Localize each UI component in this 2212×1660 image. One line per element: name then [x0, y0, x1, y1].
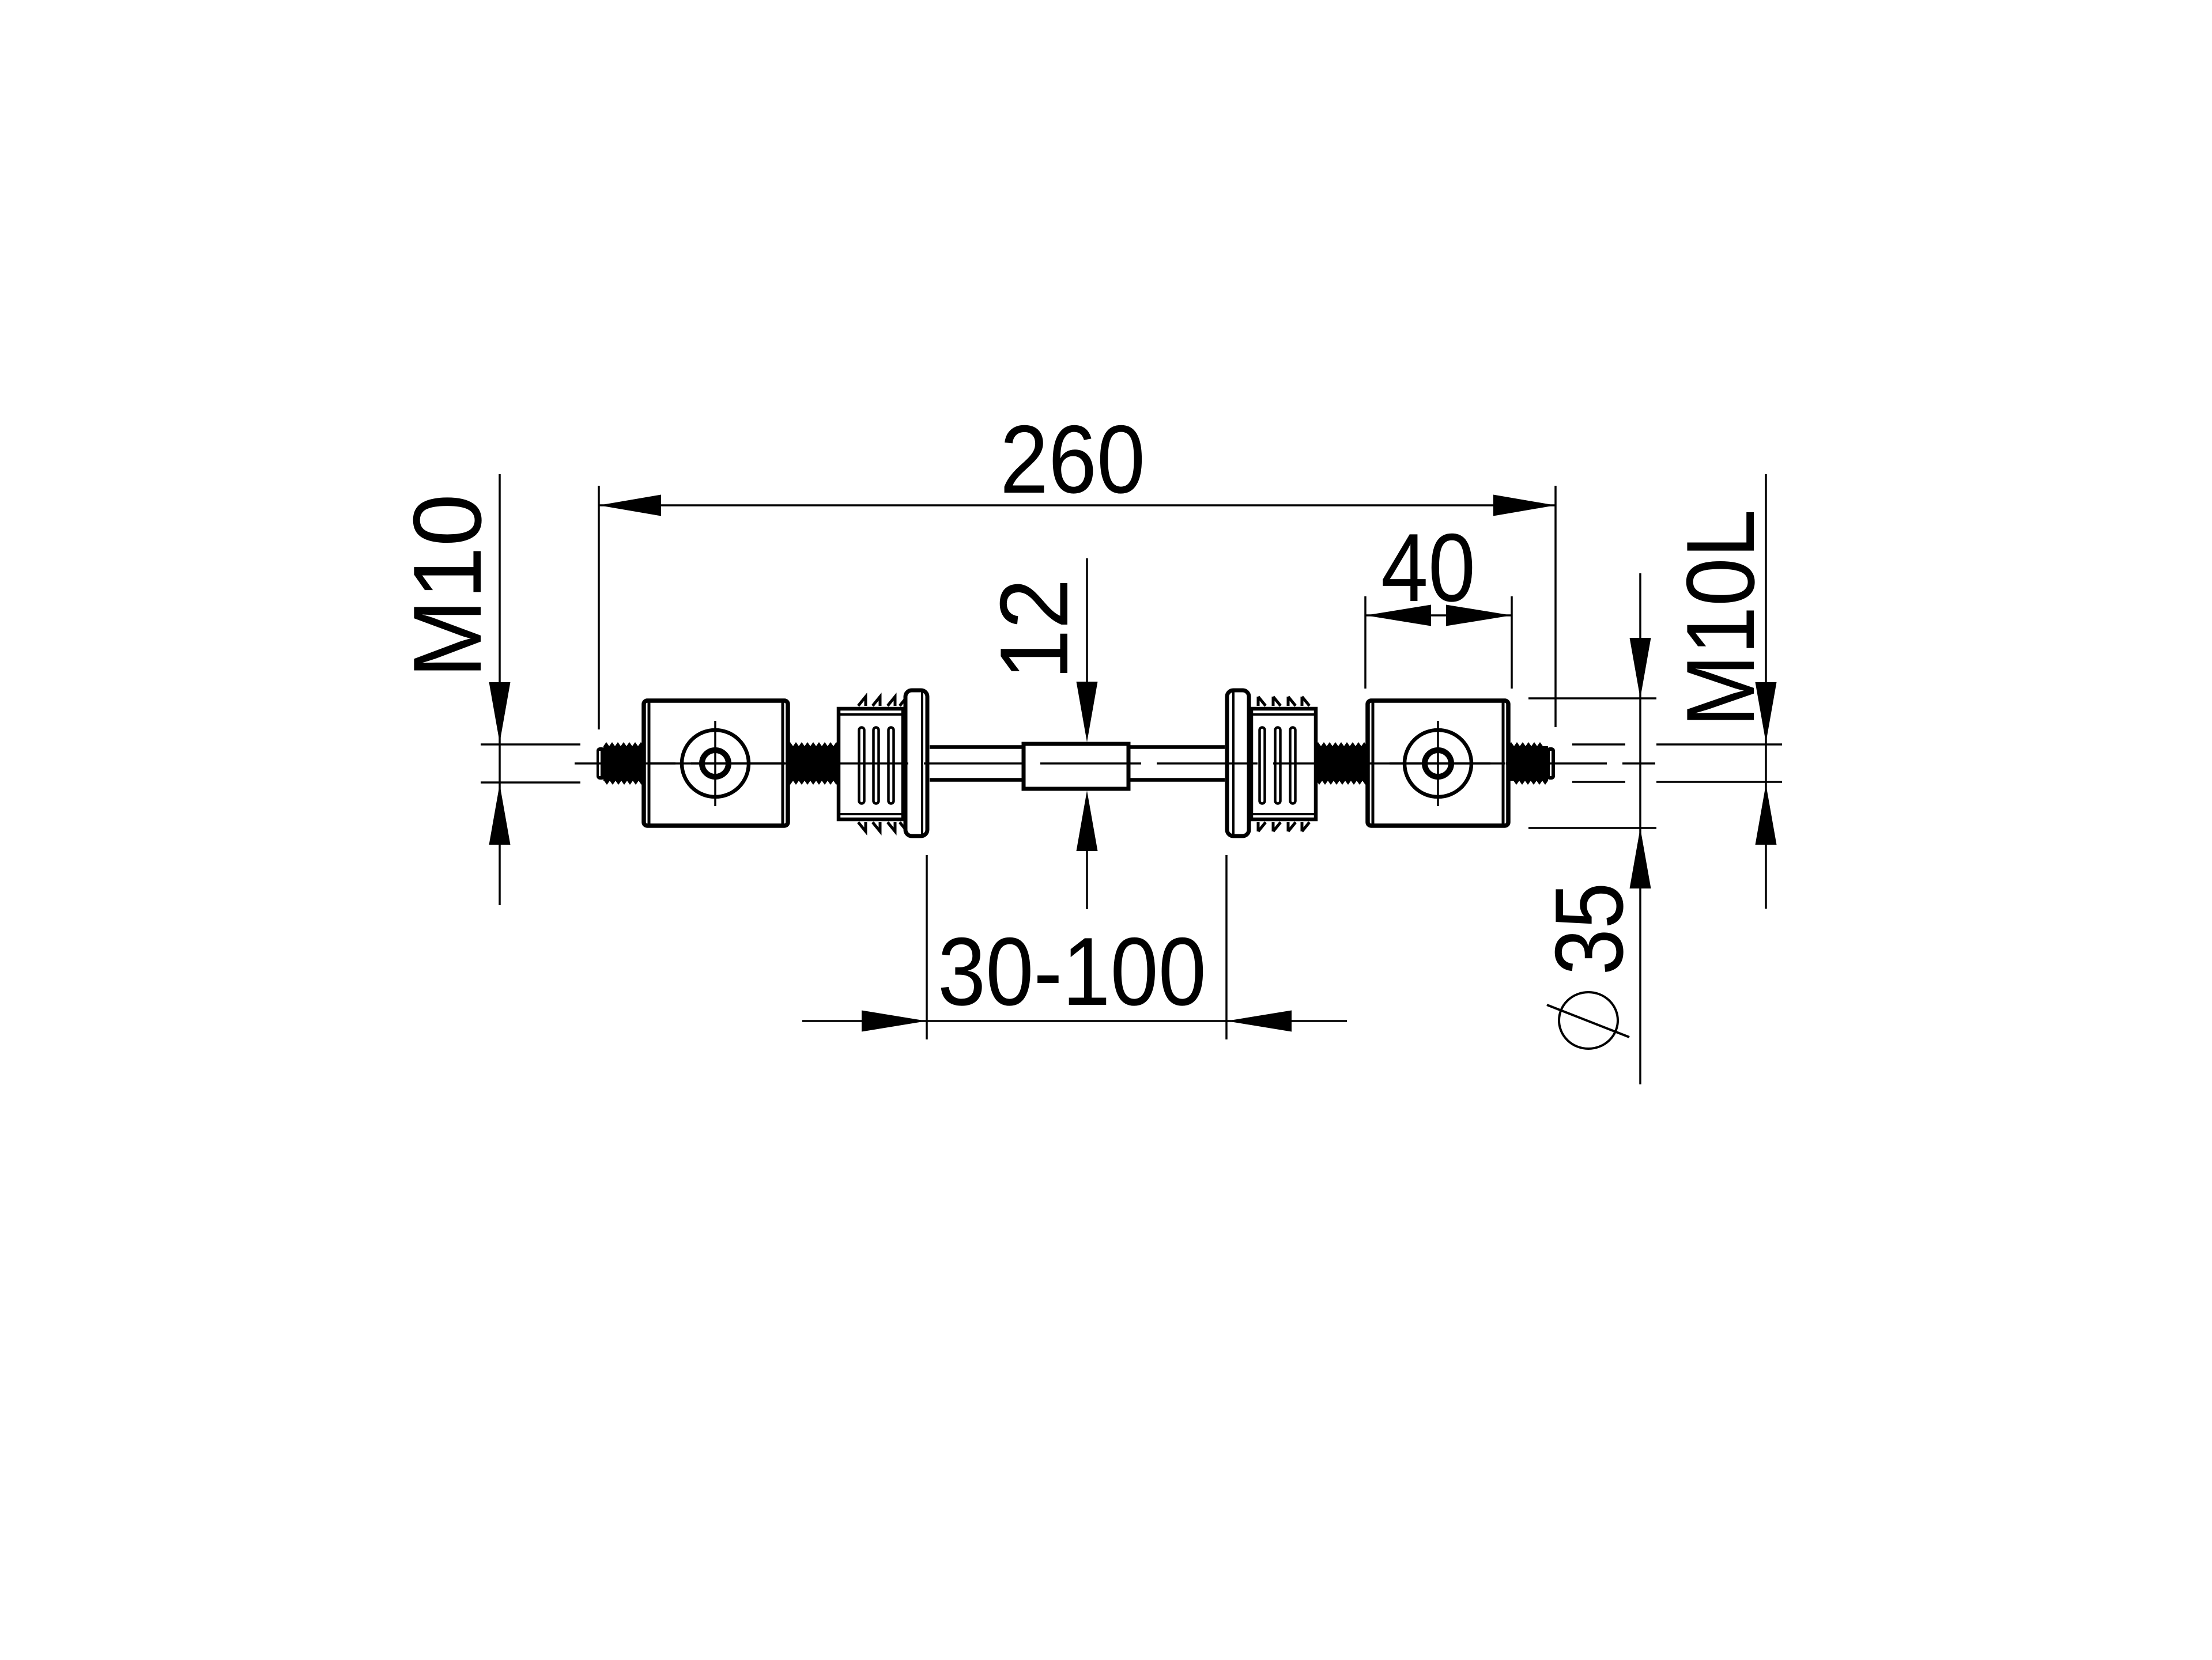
left stud end cap	[597, 747, 605, 780]
right plug slot 2	[1275, 728, 1281, 804]
dim M10L arrow lower	[1756, 784, 1777, 845]
dim dia35 diameter symbol	[1547, 992, 1629, 1049]
dim 30-100 extension line left	[926, 855, 928, 1039]
right plug serration teeth bottom	[1258, 822, 1309, 831]
left mid thread	[787, 742, 839, 785]
dim dia35 label 35	[1535, 883, 1643, 975]
right stud thread M10L	[1508, 742, 1548, 785]
dim M10L label	[1666, 509, 1775, 727]
dim 260 extension line left	[598, 486, 600, 729]
right flange	[1227, 690, 1249, 836]
dim 260 arrow left	[599, 495, 661, 516]
right stud end cap	[1546, 747, 1555, 780]
left block crosshair	[648, 721, 785, 806]
right plug slot 3	[1290, 728, 1296, 804]
svg-text:30-100: 30-100	[938, 917, 1206, 1026]
dim 12 leader upper	[1086, 558, 1088, 683]
dim 30-100 arrow right	[1226, 1011, 1292, 1032]
dim dia35 line	[1639, 573, 1641, 1084]
svg-text:M10: M10	[393, 494, 501, 678]
left block outer circle	[682, 730, 749, 797]
left rod section	[930, 747, 1026, 780]
dim M10 arrow upper	[489, 682, 511, 743]
dim 40 arrow right	[1446, 605, 1512, 626]
left block body	[644, 701, 788, 826]
dim 260 line	[599, 504, 1556, 506]
svg-text:35: 35	[1535, 883, 1643, 975]
right block crosshair	[1371, 721, 1505, 806]
right block outer circle	[1405, 730, 1471, 797]
dim 12 label	[980, 578, 1088, 680]
right plug body	[1251, 709, 1318, 819]
left plug serration teeth top	[858, 697, 907, 706]
dim M10 label	[393, 494, 501, 678]
dim 40 label	[1381, 513, 1475, 622]
dim M10L arrow upper	[1756, 682, 1777, 743]
centre line	[575, 762, 1655, 765]
svg-text:12: 12	[980, 578, 1088, 680]
dim 40 extension lines	[1365, 596, 1512, 689]
dim M10 extension lines	[481, 744, 580, 782]
left stud thread M10	[603, 742, 644, 785]
dim dia35 arrow upper	[1630, 638, 1651, 698]
right block body	[1368, 701, 1508, 826]
dim 260 extension line right	[1554, 486, 1557, 727]
dim 12 leader lower	[1086, 850, 1088, 909]
dim M10 arrow lower	[489, 784, 511, 845]
dim 260 label	[1000, 405, 1145, 513]
right block hole	[1425, 750, 1451, 777]
left plug serration teeth bottom	[858, 822, 907, 831]
dim M10L extension lines	[1572, 744, 1782, 782]
svg-text:260: 260	[1000, 405, 1145, 513]
left block hole	[702, 750, 728, 777]
svg-text:M10L: M10L	[1666, 509, 1775, 727]
dim 12 arrow lower	[1077, 791, 1098, 851]
left flange	[905, 690, 927, 836]
dim 30-100 label	[938, 917, 1206, 1026]
svg-text:40: 40	[1381, 513, 1475, 622]
dim 40 line	[1365, 614, 1512, 617]
right rod section	[1127, 747, 1225, 780]
dim 30-100 arrow left	[862, 1011, 927, 1032]
right mid thread	[1315, 742, 1368, 785]
left plug body	[837, 709, 904, 819]
dim dia35 extension lines	[1528, 698, 1656, 828]
left plug slot 1	[859, 728, 865, 804]
dim 30-100 line	[802, 1020, 1347, 1022]
left plug slot 3	[889, 728, 894, 804]
dim 260 arrow right	[1493, 495, 1556, 516]
dim 30-100 extension line right	[1225, 855, 1228, 1039]
dim dia35 arrow lower	[1630, 828, 1651, 888]
dim M10L line	[1765, 474, 1767, 909]
right plug serration teeth top	[1258, 697, 1309, 706]
centre sleeve	[1024, 744, 1128, 789]
dim 12 arrow upper	[1077, 682, 1098, 742]
dim 40 arrow left	[1365, 605, 1431, 626]
dim M10 line	[499, 474, 501, 905]
left plug slot 2	[874, 728, 879, 804]
right plug slot 1	[1260, 728, 1265, 804]
